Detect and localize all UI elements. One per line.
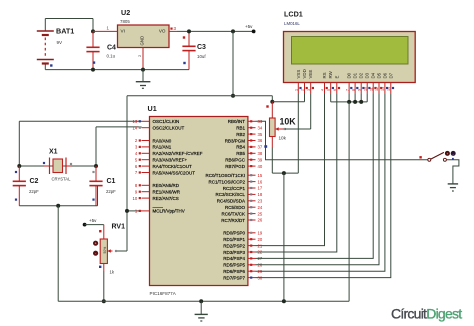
svg-text:25: 25 [258,211,263,216]
pin 33 RB0/INT [228,119,263,124]
svg-text:10k: 10k [279,136,287,141]
wire caps ground rail [19,186,97,206]
pin 3 RA1/AN1 [135,145,172,150]
wire +5v to MCLR and RV1 wiper [127,96,142,251]
svg-text:X1: X1 [49,149,58,156]
svg-text:13: 13 [381,87,385,91]
pin 21 RD2/PSP2 [223,243,263,248]
lcd pin 12 D5 [375,72,382,94]
svg-text:RE1/AN6/WR: RE1/AN6/WR [153,190,181,195]
svg-text:RV1: RV1 [112,224,126,231]
svg-text:C3: C3 [197,44,206,51]
svg-text:VDD: VDD [302,69,307,78]
svg-text:RA1/AN1: RA1/AN1 [153,145,172,150]
svg-text:2: 2 [301,89,305,91]
svg-text:36: 36 [258,138,263,143]
node pot gnd rail [282,299,286,303]
svg-text:MCLR/Vpp/THV: MCLR/Vpp/THV [153,209,185,214]
terminal +5v supply [245,24,256,33]
pin 8 RE0/AN5/RD [135,183,180,188]
svg-text:14: 14 [132,125,137,130]
wire data bus D0-D3 RW [331,101,368,103]
capacitor C1 [89,166,116,206]
svg-text:RC1/T1OSI/CCP2: RC1/T1OSI/CCP2 [208,179,245,184]
svg-text:RD4/PSP4: RD4/PSP4 [223,256,245,261]
potentiometer RV1 [93,224,125,275]
node caps gnd [56,204,60,208]
lcd pin 9 D2 [357,72,364,94]
svg-text:OSC2/CLKOUT: OSC2/CLKOUT [153,126,185,131]
svg-text:RD6/PSP6: RD6/PSP6 [223,269,245,274]
capacitor C4 [86,31,116,69]
lcd pin 5 RW [327,70,334,94]
pin 38 RB5 [236,151,263,156]
wire VDD junction down [271,96,273,102]
wire wiper to vertical [116,250,127,252]
pin 1 MCLR/Vpp/THV [135,208,185,214]
ground symbol main [195,301,208,321]
svg-text:10uf: 10uf [197,54,206,59]
svg-text:1: 1 [295,89,299,91]
svg-text:D2: D2 [359,72,364,78]
wire VSS to gnd [297,94,299,173]
wire RS to RD2 [256,94,325,246]
svg-text:GND: GND [140,36,145,46]
wire crystal node [19,165,96,167]
wire pin1 VI [93,26,118,32]
pin 39 RB6/PGC [225,157,263,162]
wire caps gnd to main rail [57,206,59,301]
lcd pin 6 E [333,76,340,95]
pin 24 RC5/SDO [225,205,263,210]
node +5v branch [231,29,235,33]
wire +5v rail horizontal [127,95,272,97]
node D1 bus [353,100,357,104]
svg-text:U2: U2 [121,8,130,17]
wire OSC1 [19,121,141,166]
node C4 ground [91,68,95,72]
svg-text:RW: RW [328,70,333,78]
svg-text:0.1u: 0.1u [107,54,116,59]
pin 16 RC1/T1OSI/CCP2 [208,179,262,184]
svg-text:RD7/PSP7: RD7/PSP7 [223,275,245,280]
svg-text:6: 6 [333,89,337,91]
lcd pin 8 D1 [351,72,358,94]
svg-text:RD1/PSP1: RD1/PSP1 [223,237,245,242]
wire RV1 to ground rail [103,271,105,301]
svg-text:RC6/TX/CK: RC6/TX/CK [221,211,245,216]
svg-text:RE0/AN5/RD: RE0/AN5/RD [153,183,180,188]
capacitor C3 [182,31,206,69]
lcd pin 2 VDD [301,69,308,94]
svg-text:14: 14 [387,87,391,91]
svg-text:35: 35 [258,132,263,137]
pin 7 RA5/AN4/SS/C2OUT [135,170,195,175]
svg-text:RA0/AN0: RA0/AN0 [153,138,172,143]
ground symbol switch [448,184,458,191]
wire RW to bus [330,94,332,102]
svg-text:RB5: RB5 [236,151,245,156]
svg-text:RA3/AN3/VREF+: RA3/AN3/VREF+ [153,158,188,163]
svg-text:17: 17 [258,186,263,191]
pin 22 RD3/PSP3 [223,250,263,255]
pin 30 RD7/PSP7 [223,275,263,280]
svg-text:4: 4 [321,89,325,91]
pin 17 RC2/CCP1 [223,186,263,191]
svg-text:RS: RS [322,72,327,78]
svg-text:RD2/PSP2: RD2/PSP2 [223,243,245,248]
pin 18 RC3/SCK/SCL [215,192,262,197]
node crystal left [17,164,21,168]
svg-text:13: 13 [132,119,137,124]
pin 26 RC7/RX/DT [221,218,263,223]
wire D7 to RD7 [256,94,391,278]
svg-text:26: 26 [258,218,263,223]
pin 13 OSC1/CLKIN [132,119,179,124]
svg-text:8: 8 [351,89,355,91]
wire +5v to RV1 [85,225,104,239]
svg-text:+: + [95,241,97,245]
marker RB0 wire [264,145,266,147]
wire main ground rail [58,300,349,302]
svg-text:D3: D3 [365,72,370,78]
wire pot gnd to rail [283,173,285,301]
wire D1 down [354,94,356,102]
svg-text:22pF: 22pF [106,189,116,194]
svg-text:+: + [446,152,448,156]
svg-text:RE2/AN7/CS: RE2/AN7/CS [153,196,179,201]
svg-text:18: 18 [258,192,263,197]
wire D0 down [348,94,350,102]
wire D4 to RD4 [256,94,374,258]
svg-text:CírcuitDigest: CírcuitDigest [391,306,462,322]
pin 37 RB4 [236,145,263,150]
svg-text:D4: D4 [371,72,376,78]
svg-text:20: 20 [258,237,263,242]
pin 5 RA3/AN3/VREF+ [135,157,188,162]
display LCD1 LM016L [284,10,416,83]
node MCLR junction [125,209,129,213]
battery BAT1 [37,19,74,70]
pin 40 RB7/PGD [225,164,263,169]
svg-text:RC0/T1OSO/T1CKI: RC0/T1OSO/T1CKI [205,173,245,178]
svg-text:7805: 7805 [120,19,130,24]
wire D2 down [360,94,362,102]
pin 15 RC0/T1OSO/T1CKI [205,173,262,178]
svg-text:D5: D5 [377,72,382,78]
svg-text:RD0/PSP0: RD0/PSP0 [223,231,245,236]
microcontroller U1 PIC16F877A [148,104,248,296]
lcd pin 1 VSS [295,70,302,94]
node pot top [270,100,274,104]
pin 23 RC4/SDI/SDA [217,199,263,204]
pin 10 RE2/AN7/CS [132,196,178,201]
svg-text:RB7/PGD: RB7/PGD [225,164,246,169]
wire RB0 to switch [256,121,430,160]
svg-text:PIC16F877A: PIC16F877A [150,291,177,296]
svg-text:RC5/SDO: RC5/SDO [225,205,246,210]
svg-text:-: - [453,152,454,156]
svg-text:10: 10 [363,87,367,91]
lcd pin 11 D4 [369,72,376,94]
pin 2 RA0/AN0 [135,138,172,143]
svg-text:24: 24 [258,205,263,210]
svg-text:RA2/AN2/VREF-/CVREF: RA2/AN2/VREF-/CVREF [153,151,203,156]
pin 25 RC6/TX/CK [221,211,262,216]
capacitor C2 [13,166,39,206]
svg-text:C2: C2 [30,178,39,185]
node D2 bus [359,100,363,104]
svg-text:19: 19 [258,231,263,236]
pin 14 OSC2/CLKOUT [132,125,184,130]
wire D6 to RD6 [256,94,385,271]
lcd pin 3 VEE [307,70,314,94]
svg-text:+5v: +5v [89,218,97,223]
svg-text:9V: 9V [57,40,64,45]
svg-text:16: 16 [258,179,263,184]
pin 34 RB1 [236,125,263,130]
svg-text:RB1: RB1 [236,126,245,131]
pin 29 RD6/PSP6 [223,269,263,274]
svg-text:RB2: RB2 [236,132,245,137]
pin 4 RA2/AN2/VREF-/CVREF [135,151,203,156]
svg-text:RD3/PSP3: RD3/PSP3 [223,250,245,255]
node RV1 gnd [102,299,106,303]
svg-text:RD5/PSP5: RD5/PSP5 [223,263,245,268]
switch SW1 [419,151,455,161]
wire VEE to pot wiper [285,94,311,129]
svg-text:OSC1/CLKIN: OSC1/CLKIN [153,119,180,124]
wire E to RD3 [256,94,337,252]
svg-text:VO: VO [159,28,166,33]
node D0 bus [347,100,351,104]
wire battery+ to VI node [45,19,93,32]
svg-text:+5v: +5v [245,24,253,29]
svg-text:RC2/CCP1: RC2/CCP1 [223,186,246,191]
regulator U2 7805 [118,8,170,48]
lcd pin 4 RS [321,72,328,94]
svg-text:VI: VI [121,28,125,33]
svg-text:12: 12 [375,87,379,91]
svg-text:D6: D6 [382,72,387,78]
ground rail supply [45,69,189,71]
svg-text:11: 11 [369,87,373,91]
wire OSC2 [96,127,142,166]
svg-text:RB6/PGC: RB6/PGC [225,158,246,163]
svg-text:RB0/INT: RB0/INT [228,119,246,124]
pin 20 RD1/PSP1 [223,237,263,242]
crystal X1 [43,149,72,182]
svg-text:RB4: RB4 [236,145,245,150]
svg-text:LM016L: LM016L [284,21,300,26]
lcd pin 13 D6 [381,72,388,94]
wire +5v down [232,31,234,95]
ground symbol supply [136,70,151,89]
pin 28 RD5/PSP5 [223,263,263,268]
svg-text:50%: 50% [103,247,107,254]
node C3 top [187,29,191,33]
svg-text:BAT1: BAT1 [56,27,74,36]
svg-text:22pF: 22pF [29,189,39,194]
wire D5 to RD5 [256,94,380,265]
lcd pin 10 D3 [363,72,370,94]
svg-text:23: 23 [258,199,263,204]
svg-text:U1: U1 [148,104,157,113]
svg-text:38: 38 [258,151,263,156]
wire switch to ground [446,160,459,184]
svg-text:D1: D1 [353,72,358,78]
node crystal right [94,164,98,168]
pin 19 RD0/PSP0 [223,231,263,236]
resistor 10K pot [265,102,296,148]
lcd pin 7 D0 [345,72,352,94]
svg-text:40: 40 [258,164,263,169]
wire pot bottom [272,148,298,174]
svg-text:RA5/AN4/SS/C2OUT: RA5/AN4/SS/C2OUT [153,170,196,175]
pin 27 RD4/PSP4 [223,256,263,261]
svg-text:37: 37 [258,145,263,150]
svg-text:RA4/T0CKI/C1OUT: RA4/T0CKI/C1OUT [153,164,193,169]
svg-text:CRYSTAL: CRYSTAL [52,177,72,182]
node pot gnd [282,171,286,175]
svg-text:C1: C1 [107,178,116,185]
svg-text:RC4/SDI/SDA: RC4/SDI/SDA [217,199,245,204]
wire bus to ground rail [348,102,350,301]
node main gnd [199,299,203,303]
wire pin3 VO [169,26,177,31]
pin 9 RE1/AN6/WR [135,189,181,194]
pin 36 RB3/PGM [225,138,263,143]
pin2 GND of U2 [137,48,143,70]
node U2 gnd [141,68,145,72]
terminal +5v RV1 [83,218,97,227]
svg-text:15: 15 [258,173,263,178]
svg-text:RB3/PGM: RB3/PGM [225,138,246,143]
svg-text:VSS: VSS [296,70,301,79]
svg-text:5: 5 [327,89,331,91]
svg-text:9: 9 [357,89,361,91]
svg-text:D0: D0 [347,72,352,78]
svg-text:7: 7 [345,89,349,91]
svg-text:34: 34 [258,125,263,130]
svg-text:E: E [334,76,339,79]
svg-text:10K: 10K [280,117,297,127]
svg-text:39: 39 [258,157,263,162]
node +5v rail [231,94,235,98]
node VI junction [91,29,95,33]
lcd pin 14 D7 [387,72,394,94]
pin 6 RA4/T0CKI/C1OUT [135,164,192,169]
svg-text:C4: C4 [107,45,116,52]
CircuitDigest logo [391,306,462,322]
svg-text:3: 3 [307,89,311,91]
wire D3 down [366,94,368,102]
pin 35 RB2 [236,132,263,137]
svg-text:10: 10 [132,196,137,201]
svg-text:LCD1: LCD1 [284,10,303,19]
svg-text:D7: D7 [388,72,393,78]
svg-text:RC3/SCK/SCL: RC3/SCK/SCL [215,192,245,197]
svg-text:VEE: VEE [308,70,313,79]
wire VO to +5v [177,30,254,32]
wire VDD to +5v [272,94,304,102]
svg-text:RC7/RX/DT: RC7/RX/DT [221,218,245,223]
